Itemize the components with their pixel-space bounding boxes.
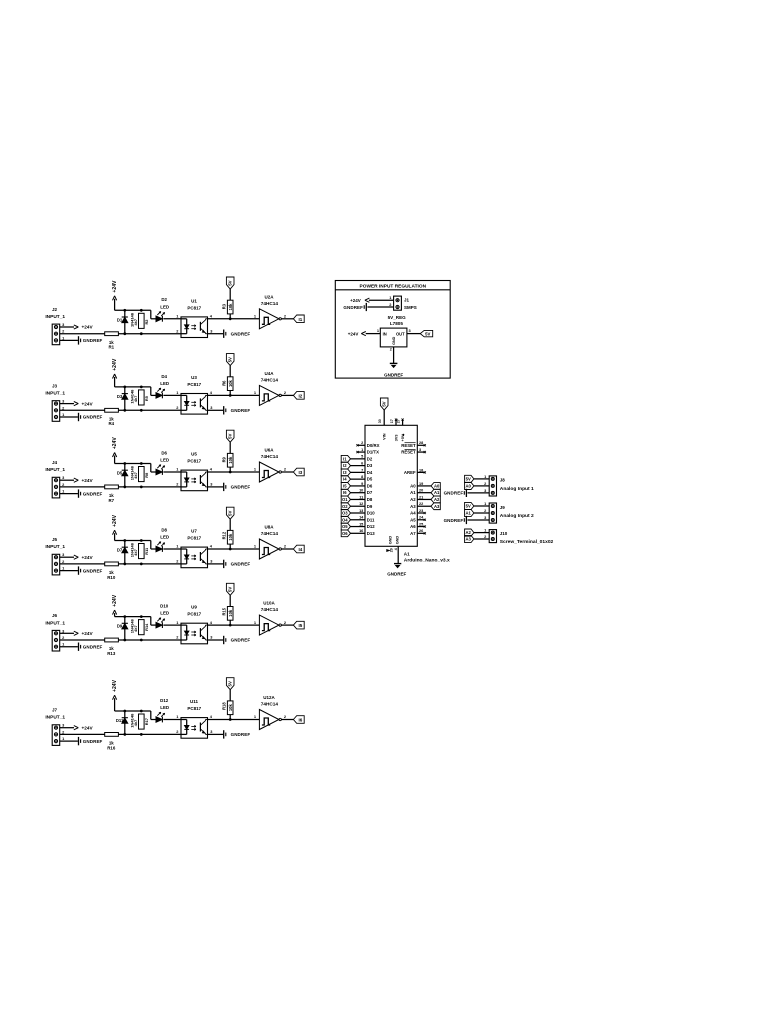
- svg-text:GND: GND: [388, 536, 392, 545]
- svg-text:J1: J1: [404, 297, 410, 302]
- svg-text:8: 8: [361, 475, 363, 479]
- pin 13 D10: [350, 509, 375, 516]
- svg-text:J5: J5: [52, 537, 58, 542]
- svg-text:5: 5: [361, 455, 363, 459]
- wire opto pin3 to GNDREF: [208, 563, 224, 565]
- svg-text:U10A: U10A: [263, 601, 275, 606]
- resistor R8 4k7: [133, 467, 149, 482]
- wire LED to opto pin1: [163, 471, 181, 473]
- svg-text:R6: R6: [222, 380, 227, 386]
- svg-text:+24V: +24V: [82, 325, 94, 330]
- LED D12: [156, 698, 169, 723]
- wire rail corner to LED D12: [151, 711, 156, 720]
- pin 26 A7: [410, 529, 426, 536]
- svg-text:R17: R17: [144, 718, 149, 725]
- svg-text:2: 2: [62, 559, 65, 564]
- svg-text:I4: I4: [343, 477, 347, 482]
- svg-text:D7: D7: [117, 548, 123, 553]
- power label +24V from J1 pin1: [350, 298, 393, 303]
- svg-text:6: 6: [361, 462, 363, 466]
- power flag GNDREF on pin 1: [60, 413, 103, 421]
- pin 22 A3: [410, 502, 431, 509]
- svg-text:GNDREF: GNDREF: [343, 305, 363, 310]
- svg-text:J4: J4: [52, 460, 58, 465]
- svg-text:R1: R1: [108, 345, 114, 350]
- svg-text:A4: A4: [410, 511, 416, 516]
- svg-text:Arduino_Nano_v3.x: Arduino_Nano_v3.x: [404, 557, 450, 563]
- svg-text:1: 1: [62, 412, 65, 417]
- svg-text:O5: O5: [342, 524, 348, 529]
- svg-text:2: 2: [284, 714, 287, 719]
- connector J8 Analog Input 1: [484, 474, 534, 496]
- svg-text:R15: R15: [222, 607, 227, 615]
- svg-text:22: 22: [419, 502, 423, 506]
- wire LED to opto pin1: [163, 719, 181, 721]
- svg-text:GNDREF: GNDREF: [231, 485, 251, 490]
- svg-text:3: 3: [62, 723, 65, 728]
- svg-text:LED: LED: [160, 611, 169, 616]
- pin 11 D8: [350, 495, 373, 502]
- power symbol +24V top: [112, 514, 118, 540]
- power flag GNDREF on pin 1: [60, 566, 103, 574]
- power symbol +24V top: [112, 594, 118, 616]
- wire LED to opto pin1: [163, 394, 181, 396]
- svg-text:1: 1: [254, 620, 257, 625]
- svg-text:5V: 5V: [228, 511, 233, 516]
- global label I4: [341, 476, 350, 483]
- resistor R3 10k pull-up: [222, 300, 233, 319]
- svg-text:GNDREF: GNDREF: [83, 739, 103, 744]
- svg-text:POWER INPUT REGULATION: POWER INPUT REGULATION: [360, 283, 427, 289]
- svg-text:2: 2: [62, 482, 65, 487]
- svg-text:D4: D4: [367, 470, 373, 475]
- LED D10: [156, 604, 169, 629]
- global label A1 to J9 pin2: [465, 509, 490, 516]
- svg-text:3: 3: [210, 482, 213, 487]
- svg-text:D7: D7: [367, 490, 373, 495]
- power label 5V at regulator output: [407, 330, 433, 336]
- svg-text:1: 1: [377, 328, 380, 333]
- wire gate output to label I4: [281, 548, 293, 550]
- svg-text:A2: A2: [434, 497, 440, 502]
- svg-text:J6: J6: [52, 613, 58, 618]
- svg-text:1: 1: [176, 314, 179, 319]
- svg-text:74HC14: 74HC14: [261, 377, 279, 382]
- svg-text:26: 26: [419, 529, 423, 533]
- pin 28 RESET: [401, 441, 426, 448]
- svg-text:A0: A0: [466, 484, 472, 489]
- svg-text:2: 2: [176, 729, 179, 734]
- wire opto pin3 to GNDREF: [208, 409, 224, 411]
- global label O2: [341, 503, 350, 510]
- global label O6: [341, 530, 350, 537]
- svg-text:GNDREF: GNDREF: [83, 644, 103, 649]
- pin 24 A5: [410, 516, 426, 523]
- schmitt inverter U8A 74HC14: [254, 525, 287, 560]
- svg-text:U11: U11: [190, 699, 199, 704]
- wire gate output to label I2: [281, 394, 293, 396]
- svg-text:2: 2: [62, 729, 65, 734]
- svg-text:O4: O4: [342, 517, 348, 522]
- wire rail corner to LED D4: [151, 387, 156, 396]
- svg-text:PC817: PC817: [187, 305, 201, 310]
- svg-text:+24V: +24V: [348, 331, 359, 336]
- svg-text:1: 1: [62, 335, 65, 340]
- svg-text:4: 4: [210, 714, 213, 719]
- svg-text:A1: A1: [434, 490, 440, 495]
- schmitt inverter U6A 74HC14: [254, 448, 287, 483]
- wire +24V rail: [115, 710, 151, 713]
- svg-text:2: 2: [284, 390, 287, 395]
- svg-text:24: 24: [419, 516, 424, 520]
- connector J10 Screw_Terminal_01x02: [484, 528, 553, 545]
- svg-text:R9: R9: [222, 456, 227, 462]
- wire rail corner to LED D6: [151, 464, 156, 473]
- power symbol 5V: [226, 507, 234, 530]
- svg-text:1: 1: [254, 467, 257, 472]
- svg-text:2: 2: [389, 302, 392, 307]
- resistor R15 10k pull-up: [222, 607, 233, 626]
- svg-text:J7: J7: [52, 708, 58, 713]
- LED D8: [156, 527, 169, 552]
- svg-text:A0: A0: [410, 483, 416, 488]
- diode D1 1N4148: [117, 310, 135, 333]
- connector J2 INPUT_1: [45, 307, 65, 345]
- svg-text:J9: J9: [500, 505, 506, 510]
- svg-text:GNDREF: GNDREF: [387, 572, 406, 577]
- svg-text:4k7: 4k7: [133, 549, 138, 556]
- power flag GNDREF at opto: [224, 406, 251, 414]
- svg-text:+24V: +24V: [112, 437, 118, 450]
- power flag GNDREF on pin 1: [60, 737, 103, 745]
- connector J4 INPUT_1: [45, 460, 65, 498]
- resistor R16 1k: [105, 733, 119, 751]
- power flag GNDREF at opto: [224, 730, 251, 738]
- wire opto pin4 to gate: [208, 624, 260, 627]
- svg-text:1: 1: [176, 714, 179, 719]
- power flag GNDREF on pin 1: [60, 489, 103, 497]
- svg-text:3: 3: [62, 552, 65, 557]
- svg-text:+24V: +24V: [82, 631, 94, 636]
- power label 5V to J8 pin1: [465, 475, 490, 482]
- resistor R6 10k pull-up: [222, 377, 233, 396]
- svg-text:O2: O2: [342, 504, 348, 509]
- svg-text:2: 2: [361, 441, 363, 445]
- svg-text:1: 1: [361, 448, 363, 452]
- wire opto pin4 to gate: [208, 548, 260, 551]
- power label +24V on pin 3: [60, 631, 94, 636]
- svg-text:GNDREF: GNDREF: [83, 568, 103, 573]
- svg-text:2: 2: [62, 329, 65, 334]
- svg-text:INPUT_1: INPUT_1: [45, 467, 65, 473]
- LED D6: [156, 450, 169, 475]
- svg-text:A0: A0: [434, 483, 440, 488]
- wire R16 to opto pin2: [118, 733, 181, 736]
- global label O5: [341, 523, 350, 530]
- svg-text:GND: GND: [392, 336, 396, 345]
- global label O1: [341, 496, 350, 503]
- svg-text:23: 23: [419, 509, 423, 513]
- svg-text:J2: J2: [52, 307, 58, 312]
- svg-text:4k7: 4k7: [133, 625, 138, 632]
- resistor R9 10k pull-up: [222, 453, 233, 472]
- svg-text:18: 18: [419, 468, 423, 472]
- power symbol +24V top: [112, 679, 118, 711]
- resistor R2 4k7: [133, 313, 149, 328]
- wire +24V rail: [115, 309, 151, 312]
- global label I1: [341, 455, 350, 462]
- resistor R14 4k7: [133, 620, 149, 635]
- global label A3: [431, 503, 440, 510]
- svg-text:28: 28: [419, 441, 423, 445]
- svg-text:R13: R13: [107, 651, 116, 656]
- global label I1: [293, 315, 304, 323]
- svg-text:D1/TX: D1/TX: [367, 450, 379, 455]
- svg-text:U9: U9: [191, 605, 197, 610]
- wire gate output to label I6: [281, 719, 293, 721]
- svg-text:+24V: +24V: [112, 514, 118, 527]
- svg-text:1: 1: [62, 566, 65, 571]
- svg-text:A2: A2: [466, 530, 472, 535]
- svg-text:U12A: U12A: [263, 695, 275, 700]
- svg-text:10k: 10k: [228, 704, 233, 712]
- power flag GNDREF at opto: [224, 560, 251, 568]
- power label +24V on pin 3: [60, 478, 94, 483]
- svg-text:2: 2: [390, 347, 392, 351]
- power symbol 5V: [226, 354, 234, 377]
- svg-text:74HC14: 74HC14: [261, 301, 279, 306]
- svg-text:3: 3: [62, 399, 65, 404]
- power label +24V on pin 3: [60, 325, 94, 330]
- wire R7 to opto pin2: [118, 486, 181, 489]
- svg-text:PC817: PC817: [187, 536, 201, 541]
- svg-text:U2A: U2A: [264, 294, 274, 299]
- global label I6: [341, 489, 350, 496]
- svg-text:I2: I2: [343, 463, 347, 468]
- svg-text:D13: D13: [367, 531, 375, 536]
- connector J9 Analog Input 2: [484, 501, 534, 523]
- pin 15 D12: [350, 522, 375, 529]
- svg-text:5V_REG: 5V_REG: [388, 315, 407, 320]
- svg-text:AREF: AREF: [404, 470, 416, 475]
- svg-text:U7: U7: [191, 529, 197, 534]
- power label +24V on pin 3: [60, 401, 94, 406]
- svg-text:U1: U1: [191, 298, 197, 303]
- svg-text:4k7: 4k7: [133, 472, 138, 479]
- svg-text:LED: LED: [160, 458, 169, 463]
- svg-text:10k: 10k: [228, 303, 233, 311]
- optocoupler U9 PC817: [176, 605, 213, 644]
- svg-text:1: 1: [176, 390, 179, 395]
- wire LED to opto pin1: [163, 318, 181, 320]
- pin 23 A4: [410, 509, 426, 516]
- resistor R5 4k7: [133, 390, 149, 405]
- svg-text:J8: J8: [500, 478, 506, 483]
- svg-text:17: 17: [390, 419, 394, 423]
- svg-text:1: 1: [389, 295, 392, 300]
- svg-text:GNDREF: GNDREF: [231, 562, 251, 567]
- svg-text:10k: 10k: [228, 379, 233, 387]
- wire LED to opto pin1: [163, 624, 181, 626]
- svg-text:3: 3: [409, 328, 412, 333]
- pin 17 3V3: [390, 419, 398, 442]
- svg-text:D6: D6: [161, 450, 167, 455]
- svg-text:R18: R18: [222, 702, 227, 710]
- svg-text:3: 3: [419, 448, 421, 452]
- svg-text:IN: IN: [383, 331, 387, 336]
- svg-text:A1: A1: [404, 552, 410, 557]
- svg-text:GND: GND: [396, 536, 400, 545]
- svg-text:A3: A3: [410, 504, 416, 509]
- schmitt inverter U12A 74HC14: [254, 695, 287, 730]
- svg-text:4: 4: [210, 467, 213, 472]
- resistor R17 4k7: [133, 714, 149, 729]
- svg-text:LED: LED: [160, 381, 169, 386]
- global label I5: [293, 621, 304, 629]
- svg-text:1: 1: [176, 467, 179, 472]
- svg-text:1: 1: [254, 390, 257, 395]
- wire +24V rail: [115, 539, 151, 542]
- svg-text:PC817: PC817: [187, 706, 201, 711]
- wire opto pin3 to GNDREF: [208, 639, 224, 641]
- wire +24V rail: [115, 462, 151, 465]
- svg-text:A5: A5: [410, 517, 416, 522]
- svg-text:D3: D3: [367, 463, 373, 468]
- svg-text:PC817: PC817: [187, 612, 201, 617]
- pin 19 A0: [410, 482, 431, 489]
- LED D4: [156, 374, 169, 399]
- global label O3: [341, 510, 350, 517]
- svg-text:4: 4: [210, 544, 213, 549]
- regulator U13 L7805: [377, 315, 412, 351]
- svg-text:21: 21: [419, 495, 423, 499]
- svg-text:4: 4: [210, 620, 213, 625]
- svg-text:R12: R12: [222, 531, 227, 539]
- svg-text:D8: D8: [161, 527, 167, 532]
- global label A0: [431, 483, 440, 490]
- svg-text:D2: D2: [367, 456, 373, 461]
- wire gate output to label I5: [281, 624, 293, 626]
- svg-text:I2: I2: [299, 393, 303, 398]
- wire pin2 to R16: [60, 733, 105, 735]
- power flag GNDREF at opto: [224, 483, 251, 491]
- svg-text:3: 3: [210, 328, 213, 333]
- pin 3 RESET: [401, 448, 426, 455]
- svg-text:4: 4: [394, 548, 398, 550]
- svg-text:Analog Input 2: Analog Input 2: [500, 513, 534, 519]
- wire rail corner to LED D10: [151, 617, 156, 626]
- svg-text:D0/RX: D0/RX: [367, 443, 380, 448]
- svg-text:3V3: 3V3: [394, 435, 398, 442]
- optocoupler U11 PC817: [176, 699, 213, 738]
- svg-text:5V: 5V: [425, 331, 430, 336]
- svg-text:R3: R3: [222, 303, 227, 309]
- svg-text:2: 2: [176, 635, 179, 640]
- svg-text:5V: 5V: [228, 280, 233, 285]
- svg-text:A7: A7: [410, 531, 416, 536]
- global label I2: [293, 392, 304, 400]
- svg-text:GNDREF: GNDREF: [384, 372, 403, 377]
- svg-text:SMPS: SMPS: [404, 305, 417, 310]
- svg-text:74HC14: 74HC14: [261, 454, 279, 459]
- svg-text:D11: D11: [367, 517, 375, 522]
- wire gate output to label I3: [281, 471, 293, 473]
- svg-text:LED: LED: [160, 304, 169, 309]
- diode D11 1N4148: [116, 711, 135, 734]
- svg-text:U8A: U8A: [264, 525, 274, 530]
- pins 29 4 GND and ground GNDREF at mcu: [387, 536, 407, 577]
- power symbol +24V top: [112, 358, 118, 387]
- svg-text:O3: O3: [342, 511, 348, 516]
- svg-text:14: 14: [359, 516, 364, 520]
- svg-text:5V: 5V: [228, 357, 233, 362]
- connector J3 INPUT_1: [45, 383, 65, 421]
- svg-text:A1: A1: [466, 511, 472, 516]
- svg-text:R14: R14: [144, 623, 149, 631]
- svg-text:GNDREF: GNDREF: [231, 331, 251, 336]
- svg-text:GNDREF: GNDREF: [444, 491, 464, 496]
- svg-text:D5: D5: [117, 471, 123, 476]
- wire LED to opto pin1: [163, 548, 181, 550]
- svg-text:D12: D12: [160, 698, 169, 703]
- svg-text:10k: 10k: [228, 456, 233, 464]
- svg-text:2: 2: [176, 328, 179, 333]
- power symbol 5V: [226, 678, 234, 701]
- svg-text:4k7: 4k7: [133, 396, 138, 403]
- svg-text:74HC14: 74HC14: [261, 531, 279, 536]
- svg-text:INPUT_1: INPUT_1: [45, 391, 65, 397]
- svg-text:I5: I5: [299, 623, 303, 628]
- svg-text:I3: I3: [343, 470, 347, 475]
- svg-text:1: 1: [484, 528, 487, 533]
- svg-text:R10: R10: [107, 575, 116, 580]
- svg-text:+24V: +24V: [82, 555, 94, 560]
- ground GNDREF at regulator: [384, 347, 403, 377]
- pin 5 D2: [350, 455, 373, 462]
- optocoupler U1 PC817: [176, 298, 213, 337]
- svg-text:3: 3: [210, 729, 213, 734]
- svg-text:I6: I6: [299, 718, 303, 723]
- wire opto pin4 to gate: [208, 471, 260, 474]
- pin 8 D5: [350, 475, 373, 482]
- svg-text:A1: A1: [410, 490, 416, 495]
- svg-text:GNDREF: GNDREF: [444, 518, 464, 523]
- svg-text:O6: O6: [342, 531, 348, 536]
- svg-text:VIN: VIN: [383, 433, 387, 440]
- svg-text:GNDREF: GNDREF: [231, 638, 251, 643]
- svg-text:D8: D8: [367, 497, 373, 502]
- svg-text:GNDREF: GNDREF: [231, 732, 251, 737]
- resistor R18 10k pull-up: [222, 701, 233, 720]
- svg-text:10k: 10k: [228, 533, 233, 541]
- svg-text:1: 1: [484, 474, 487, 479]
- svg-text:10: 10: [359, 489, 363, 493]
- global label I3: [293, 468, 304, 476]
- power symbol 5V: [226, 277, 234, 300]
- wire +24V rail: [115, 615, 151, 618]
- svg-text:R7: R7: [108, 498, 114, 503]
- pin 16 D13: [350, 529, 375, 536]
- resistor R7 1k: [105, 485, 119, 503]
- svg-text:2: 2: [176, 559, 179, 564]
- svg-text:GNDREF: GNDREF: [83, 415, 103, 420]
- svg-text:+24V: +24V: [112, 280, 118, 293]
- svg-text:13: 13: [359, 509, 363, 513]
- svg-text:I6: I6: [343, 490, 347, 495]
- resistor R12 10k pull-up: [222, 530, 233, 549]
- power symbol +24V top: [112, 280, 118, 310]
- power symbol 5V at VIN: [380, 398, 388, 425]
